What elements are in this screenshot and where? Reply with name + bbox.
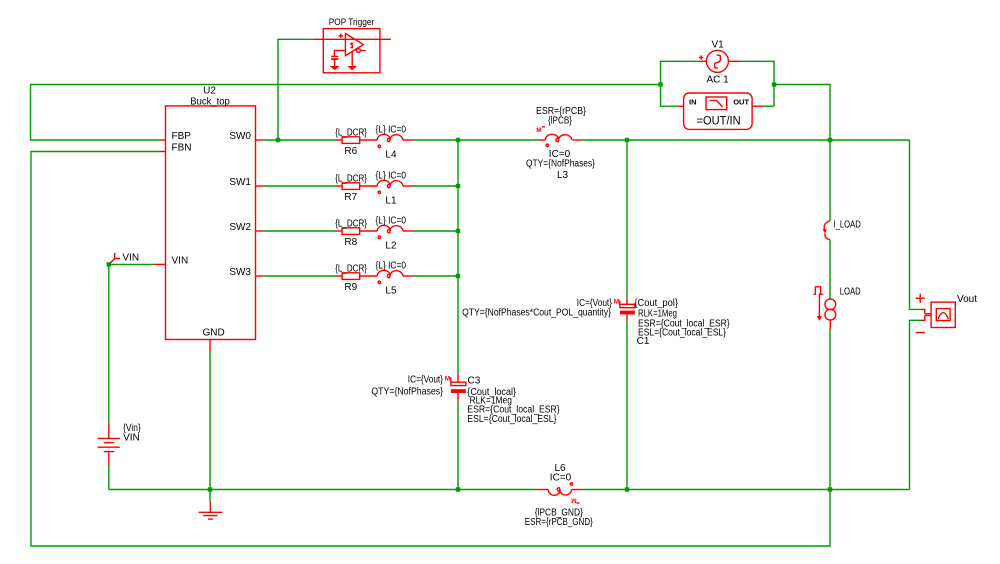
junction node SW3/bus [456,274,460,278]
svg-text:L3: L3 [557,170,569,181]
svg-text:SW1: SW1 [229,177,251,188]
wire VIN net [109,263,154,265]
svg-text:M: M [536,127,541,134]
net flag VIN [110,253,140,264]
svg-text:IC={Vout}: IC={Vout} [408,374,444,385]
junction node SW0/POP [276,138,280,142]
svg-text:IN: IN [689,98,697,107]
wire C1 bus x=627 [626,140,628,299]
svg-text:QTY={NofPhases*Cout_POL_quanti: QTY={NofPhases*Cout_POL_quantity} [462,307,611,318]
svg-text:I_LOAD: I_LOAD [834,219,861,230]
junction node C1 top [625,138,629,142]
svg-text:AC 1: AC 1 [706,74,729,85]
probe Vout [916,294,978,333]
current probe I_LOAD [823,219,861,239]
svg-text:OUT: OUT [733,98,749,107]
wire SW2 row [263,230,335,232]
resistor R8 [335,218,377,248]
wire V1 loop [661,61,702,84]
inductor L2 [376,215,414,251]
svg-text:L2: L2 [385,240,397,251]
junction node bus/gnd rail [456,487,460,491]
svg-text:VIN: VIN [123,432,140,443]
wire I_LOAD branch [829,140,831,221]
resistor R6 [335,127,377,157]
inductor L5 [376,260,414,296]
inductor L4 [376,124,414,160]
junction node load top [828,138,832,142]
svg-text:QTY={NofPhases}: QTY={NofPhases} [526,159,596,170]
svg-text:L4: L4 [385,149,397,160]
voltage source VIN battery [98,422,142,466]
svg-text:{L} IC=0: {L} IC=0 [376,124,407,135]
junction node SW0/bus [456,138,460,142]
svg-text:Buck_top: Buck_top [190,97,230,108]
svg-text:U2: U2 [203,86,216,97]
svg-text:SW3: SW3 [229,267,251,278]
svg-text:SW0: SW0 [229,131,251,142]
svg-text:M: M [614,299,619,306]
junction node SW2/bus [456,229,460,233]
svg-text:{L} IC=0: {L} IC=0 [376,215,407,226]
POP trigger block [312,17,391,73]
op-amp U2 buck block [154,86,263,351]
wire V1 to load rail [774,85,830,141]
svg-text:Vout: Vout [957,294,977,305]
inductor L3 [526,106,596,181]
svg-text:POP Trigger: POP Trigger [329,17,375,27]
wire battery to ground rail [108,466,110,490]
svg-text:L1: L1 [385,195,397,206]
svg-text:M: M [571,496,576,503]
svg-text:R9: R9 [344,282,357,293]
svg-text:VIN: VIN [172,256,189,267]
svg-text:SW2: SW2 [229,222,251,233]
current source LOAD [813,286,860,329]
svg-text:L5: L5 [385,285,397,296]
svg-text:R7: R7 [344,192,357,203]
voltage source V1 [699,39,741,85]
svg-text:=OUT/IN: =OUT/IN [697,115,741,127]
wire U2 GND down [209,351,211,502]
svg-text:{L_DCR}: {L_DCR} [335,173,367,184]
resistor R9 [335,263,377,293]
capacitor C3 [371,373,560,426]
svg-text:VIN: VIN [122,253,139,264]
svg-text:{L_DCR}: {L_DCR} [335,263,367,274]
wire ground rail [109,489,537,491]
svg-text:ESR={rPCB_GND}: ESR={rPCB_GND} [525,517,594,528]
wire output bus x=458 [457,140,459,373]
junction node load bottom [828,487,832,491]
svg-text:IC=0: IC=0 [550,472,572,483]
junction node gnd/U2 [208,487,212,491]
wire POP trigger feed [278,39,312,140]
svg-text:FBP: FBP [172,131,192,142]
svg-text:R6: R6 [344,146,357,157]
svg-text:ESL={Cout_local_ESL}: ESL={Cout_local_ESL} [467,414,557,425]
svg-text:{L} IC=0: {L} IC=0 [376,260,407,271]
inductor L6 [525,463,594,528]
svg-text:{L_DCR}: {L_DCR} [335,218,367,229]
svg-text:M: M [445,376,450,383]
wire SW1 row [263,185,335,187]
inductor L1 [376,170,414,206]
svg-text:LOAD: LOAD [840,286,861,297]
wire Vout probe branch [910,140,922,309]
svg-text:{lPCB}: {lPCB} [548,116,573,127]
resistor R7 [335,173,377,203]
svg-text:R8: R8 [344,237,357,248]
svg-text:QTY={NofPhases}: QTY={NofPhases} [371,387,443,398]
ground symbol [199,502,223,520]
junction node V1 left [658,82,662,86]
wire top rail FBP to V1 [31,85,661,141]
svg-text:GND: GND [203,328,225,339]
wire SW0 row [263,139,335,141]
svg-text:FBN: FBN [172,143,192,154]
svg-text:{L_DCR}: {L_DCR} [335,127,367,138]
wire FBN bottom loop [31,152,830,547]
svg-text:V1: V1 [711,39,724,50]
junction node C1 bottom [625,487,629,491]
junction node VIN [107,262,111,266]
wire SW3 row [263,275,335,277]
junction node SW1/bus [456,184,460,188]
svg-text:ESL={Cout_local_ESL}: ESL={Cout_local_ESL} [638,328,727,339]
transfer function block =OUT/IN [678,93,763,129]
capacitor C1 [462,298,730,347]
svg-text:{L} IC=0: {L} IC=0 [376,170,407,181]
junction node V1 right [772,82,776,86]
svg-text:C1: C1 [637,336,650,347]
svg-text:C3: C3 [468,376,481,387]
